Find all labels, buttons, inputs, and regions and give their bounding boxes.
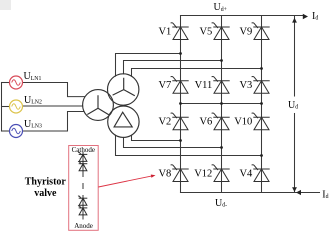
svg-text:V9: V9 [239, 27, 252, 38]
svg-text:V7: V7 [158, 80, 171, 91]
svg-text:V6: V6 [199, 117, 212, 128]
svg-text:V10: V10 [234, 117, 252, 128]
svg-text:V4: V4 [239, 169, 253, 180]
svg-text:V12: V12 [194, 169, 212, 180]
svg-text:valve: valve [34, 188, 57, 199]
svg-text:V8: V8 [158, 169, 171, 180]
svg-text:V11: V11 [195, 80, 213, 91]
svg-text:Thyristor: Thyristor [25, 176, 67, 187]
svg-text:Cathode: Cathode [72, 146, 95, 154]
svg-text:Anode: Anode [74, 222, 93, 230]
svg-text:V2: V2 [158, 117, 171, 128]
svg-text:V1: V1 [158, 27, 171, 38]
svg-text:V3: V3 [239, 80, 252, 91]
svg-text:V5: V5 [199, 27, 212, 38]
